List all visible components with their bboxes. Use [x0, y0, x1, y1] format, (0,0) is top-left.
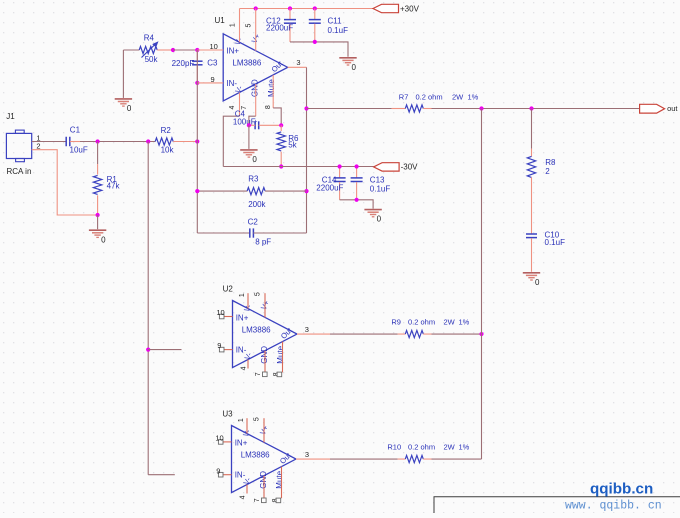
wire branch to U2/U3 inputs — [147, 142, 149, 475]
svg-text:R2: R2 — [161, 126, 172, 135]
wire U1 output pin 3 — [288, 66, 307, 68]
wire C4 left to ground — [248, 125, 250, 149]
node C13 top junction — [355, 164, 359, 168]
svg-text:IN+: IN+ — [236, 313, 249, 322]
wire pin 10 lead U1 — [197, 49, 223, 51]
svg-text:4: 4 — [239, 495, 246, 499]
node R3 right junction — [304, 189, 308, 193]
svg-text:R9: R9 — [391, 317, 401, 326]
svg-text:100uF: 100uF — [233, 118, 256, 127]
svg-text:C13: C13 — [370, 175, 385, 184]
svg-text:2W: 2W — [444, 317, 456, 326]
svg-text:9: 9 — [217, 341, 221, 350]
svg-text:1%: 1% — [459, 443, 470, 452]
wire U1 pin 7 (GND) to C4 — [255, 84, 257, 116]
pin stub 10 (U3) — [223, 441, 232, 443]
capacitor C14 2200uF — [339, 167, 341, 178]
wire U3 output to R10 — [296, 458, 330, 460]
svg-text:GND: GND — [251, 79, 260, 97]
svg-text:Mute: Mute — [275, 470, 284, 488]
svg-text:50k: 50k — [145, 55, 159, 64]
pin stub 9 (U3) — [223, 474, 232, 476]
svg-text:IN+: IN+ — [235, 438, 248, 447]
svg-text:2W: 2W — [452, 92, 464, 101]
title block border — [434, 497, 680, 513]
svg-text:www. qqibb. cn: www. qqibb. cn — [565, 499, 662, 512]
variable resistor R4 50k — [123, 49, 139, 51]
svg-text:0: 0 — [535, 278, 540, 287]
svg-text:R10: R10 — [387, 443, 401, 452]
resistor R7 0.2 ohm 2W 1% — [392, 108, 406, 110]
node C3 bottom junction — [195, 81, 199, 85]
svg-text:C2: C2 — [248, 218, 259, 227]
capacitor C11 0.1uF — [314, 9, 316, 20]
svg-text:8 pF: 8 pF — [255, 237, 271, 246]
svg-text:C1: C1 — [70, 125, 81, 134]
pin stub 5 (U2) — [264, 293, 266, 317]
capacitor C1 10uF — [65, 137, 67, 147]
op-amp U1 LM3886 — [223, 34, 288, 101]
node rail-pin5 junction — [254, 6, 258, 10]
ground below C13 — [364, 209, 381, 211]
svg-text:0.1uF: 0.1uF — [370, 184, 391, 193]
svg-text:2200uF: 2200uF — [266, 24, 293, 33]
svg-text:10: 10 — [216, 308, 224, 317]
svg-text:IN+: IN+ — [226, 47, 239, 56]
svg-text:5: 5 — [254, 292, 261, 296]
node C13 bottom junction — [355, 198, 359, 202]
node R4 wiper junction — [171, 48, 175, 52]
wire R9 to junction — [432, 333, 482, 335]
resistor R10 0.2 ohm 2W 1% — [398, 458, 406, 460]
svg-text:R3: R3 — [248, 175, 259, 184]
capacitor C12 2200uF — [289, 9, 291, 20]
capacitor C3 220pF — [196, 50, 198, 61]
svg-text:9: 9 — [216, 466, 220, 475]
svg-text:7: 7 — [255, 372, 262, 376]
svg-text:0.1uF: 0.1uF — [545, 238, 566, 247]
node R8 branch junction — [529, 106, 533, 110]
node R1 bottom junction — [96, 213, 100, 217]
resistor R2 10k — [155, 138, 173, 145]
connector J1 RCA in — [6, 133, 31, 158]
wire branch to U3 IN- — [148, 474, 175, 476]
svg-text:Mute: Mute — [267, 79, 276, 97]
wire R4 to C3/pin10 node — [173, 49, 197, 51]
node C4 right junction — [279, 123, 283, 127]
wire -30V rail — [223, 166, 373, 168]
svg-text:Mute: Mute — [276, 345, 285, 363]
svg-text:4: 4 — [240, 366, 247, 370]
wire U1 pin 8 (Mute) to R6 — [272, 75, 274, 108]
node C14 top junction — [338, 164, 342, 168]
svg-text:1%: 1% — [468, 92, 479, 101]
node R3 left junction — [195, 189, 199, 193]
node U2 branch junction — [146, 348, 150, 352]
svg-text:1%: 1% — [459, 317, 470, 326]
svg-text:1: 1 — [238, 418, 245, 422]
wire output bus to out port — [307, 108, 392, 110]
wire R4 left to ground — [122, 50, 124, 98]
node rail-C12 junction — [288, 6, 292, 10]
capacitor C4 100uF — [254, 121, 256, 129]
wire IN- feedback vertical — [196, 50, 198, 233]
resistor R9 0.2 ohm 2W 1% — [398, 333, 406, 335]
svg-text:10: 10 — [215, 434, 223, 443]
svg-text:2W: 2W — [444, 443, 456, 452]
svg-text:LM3886: LM3886 — [242, 325, 271, 334]
port out — [640, 104, 665, 113]
svg-text:C3: C3 — [207, 59, 218, 68]
svg-text:U1: U1 — [215, 16, 226, 25]
node C4 left junction — [247, 123, 251, 127]
node R9/R10 branch junction — [479, 106, 483, 110]
svg-text:RCA in: RCA in — [7, 167, 32, 176]
resistor R8 2 — [531, 149, 533, 157]
svg-text:2: 2 — [545, 167, 550, 176]
wire R10 to junction — [432, 458, 482, 460]
svg-text:+30V: +30V — [400, 4, 420, 13]
svg-text:2200uF: 2200uF — [316, 184, 343, 193]
ground below R1 — [89, 229, 106, 231]
svg-text:8: 8 — [265, 105, 272, 109]
pin stub 7 (U3) — [263, 476, 265, 499]
svg-text:5: 5 — [246, 24, 253, 28]
node C3 top junction — [195, 48, 199, 52]
svg-text:0: 0 — [127, 104, 132, 113]
svg-text:0.1uF: 0.1uF — [328, 26, 349, 35]
svg-text:1: 1 — [239, 293, 246, 297]
wire U1 pin1 to rail — [239, 9, 241, 43]
wire branch to U2 IN- — [148, 349, 181, 351]
svg-text:5: 5 — [253, 417, 260, 421]
svg-text:R8: R8 — [545, 158, 556, 167]
svg-text:0.2 ohm: 0.2 ohm — [408, 443, 435, 452]
node output-R7 junction — [304, 106, 308, 110]
ground below R4 — [115, 98, 132, 100]
svg-text:U3: U3 — [222, 409, 233, 418]
node R2 right junction on IN- line — [195, 139, 199, 143]
svg-text:0: 0 — [352, 63, 357, 72]
pin stub 7 (U2) — [264, 351, 266, 373]
resistor R3 200k — [197, 190, 247, 192]
wire J1 pin 1 to C1 — [32, 141, 66, 143]
svg-text:-30V: -30V — [401, 163, 419, 172]
pin stub 4 (U2) — [247, 360, 249, 369]
svg-text:3: 3 — [296, 58, 300, 67]
node R1 top junction — [96, 139, 100, 143]
svg-text:10uF: 10uF — [70, 145, 88, 154]
svg-text:J1: J1 — [6, 112, 15, 121]
svg-text:LM3886: LM3886 — [241, 450, 270, 459]
wire R1 bottom to ground — [97, 215, 99, 229]
svg-text:5k: 5k — [288, 141, 297, 150]
svg-text:LM3886: LM3886 — [232, 59, 261, 68]
capacitor C2 8pF — [197, 232, 250, 234]
wire U1 pin 4 (V-) to -30V rail — [239, 92, 241, 116]
ground below C4 — [240, 149, 257, 151]
svg-text:220pF: 220pF — [172, 59, 195, 68]
svg-text:47k: 47k — [107, 181, 121, 190]
svg-text:10k: 10k — [161, 145, 175, 154]
svg-text:qqibb.cn: qqibb.cn — [590, 481, 653, 498]
wire output junction vertical (R9/R10 tie) — [481, 109, 483, 460]
wire R8 branch — [531, 109, 533, 149]
op-amp U3 LM3886 — [232, 426, 297, 493]
resistor R1 47k — [97, 142, 99, 165]
svg-text:0: 0 — [101, 235, 106, 244]
svg-text:C11: C11 — [328, 16, 343, 25]
svg-text:R4: R4 — [144, 34, 155, 43]
wire R7 to out port — [432, 108, 640, 110]
pin stub 10 (U2) — [224, 316, 233, 318]
wire +30V rail — [240, 8, 374, 10]
wire C14/C13 bottoms to ground — [340, 200, 374, 209]
pin stub 8 (U2) — [282, 342, 284, 373]
pin stub 1 (U2) — [247, 293, 249, 308]
ground for C12/C11 — [339, 57, 356, 59]
power port -30V — [374, 163, 400, 171]
svg-text:0.2 ohm: 0.2 ohm — [416, 92, 443, 101]
node R9 output junction — [479, 332, 483, 336]
node R6 bottom junction on -30V rail — [279, 164, 283, 168]
svg-text:0: 0 — [377, 215, 382, 224]
wire input node C1 to R2 — [80, 141, 155, 143]
svg-text:GND: GND — [259, 471, 268, 489]
resistor R6 5k — [280, 125, 282, 131]
pin stub 4 (U3) — [246, 485, 248, 494]
svg-text:R7: R7 — [399, 92, 409, 101]
capacitor C13 0.1uF — [356, 167, 358, 178]
op-amp U2 LM3886 — [233, 301, 298, 368]
wire U2 output to R9 — [297, 333, 330, 335]
wire C12/C11 bottoms to ground — [290, 42, 348, 57]
pin stub 9 (U2) — [224, 349, 233, 351]
node C11-bottom junction — [313, 40, 317, 44]
node rail-C11 junction — [313, 6, 317, 10]
wire J1 pin 2 return to R1 bottom — [32, 150, 98, 215]
svg-text:GND: GND — [260, 346, 269, 364]
pin stub 5 (U3) — [263, 418, 265, 442]
svg-text:U2: U2 — [223, 285, 234, 294]
pin stub 8 (U3) — [281, 467, 283, 499]
wire pin 9 lead U1 — [197, 82, 223, 84]
ground below C10 — [523, 272, 540, 274]
svg-text:0: 0 — [252, 155, 257, 164]
wire U1 pin5 to rail — [255, 9, 257, 51]
svg-text:3: 3 — [305, 325, 309, 334]
svg-text:7: 7 — [254, 498, 261, 502]
power port +30V — [373, 4, 399, 12]
svg-text:out: out — [667, 104, 678, 113]
svg-text:200k: 200k — [248, 200, 266, 209]
svg-text:3: 3 — [305, 450, 309, 459]
pin stub 1 (U3) — [246, 418, 248, 433]
svg-text:0.2 ohm: 0.2 ohm — [408, 317, 435, 326]
node branch to U2/U3 junction — [146, 139, 150, 143]
svg-text:1: 1 — [229, 23, 236, 27]
capacitor C10 0.1uF — [526, 233, 537, 235]
